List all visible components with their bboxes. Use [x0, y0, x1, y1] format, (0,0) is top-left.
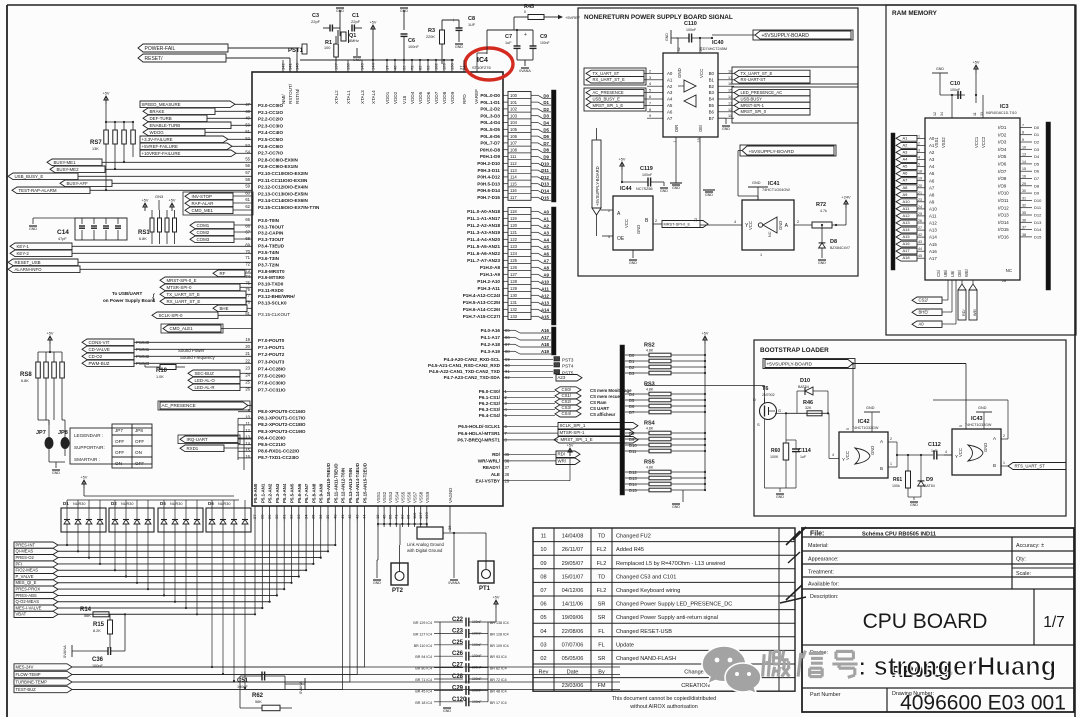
svg-text:19/09/06: 19/09/06	[562, 615, 584, 621]
svg-text:D9: D9	[629, 437, 635, 442]
svg-text:CS Ram: CS Ram	[590, 400, 607, 405]
svg-text:This document cannot be copied: This document cannot be copied/distribut…	[612, 696, 716, 702]
svg-text:BR 93 IC4: BR 93 IC4	[490, 655, 507, 659]
flag FLOW-TEMP	[14, 671, 620, 677]
svg-text:GND: GND	[722, 127, 730, 131]
svg-text:60: 60	[245, 190, 250, 195]
svg-text:7: 7	[1022, 123, 1024, 127]
svg-text:KEY-2: KEY-2	[17, 251, 30, 256]
svg-text:D9: D9	[543, 155, 549, 160]
svg-text:D2: D2	[629, 365, 635, 370]
svg-text:112: 112	[510, 161, 517, 166]
svg-text:D12: D12	[541, 175, 550, 180]
capacitor C14 bank	[57, 218, 127, 241]
revision table	[533, 528, 795, 691]
svg-text:QI-MEAS: QI-MEAS	[16, 549, 34, 554]
power +24V	[842, 196, 851, 226]
svg-text:A13: A13	[541, 300, 550, 305]
ground below R61 D9	[908, 497, 921, 507]
svg-text:16: 16	[1022, 175, 1026, 179]
flag RESET_USB	[8, 259, 252, 266]
power +5V RS1 left	[142, 199, 149, 212]
svg-text:R62: R62	[252, 693, 264, 699]
svg-text:+24V: +24V	[842, 196, 851, 200]
svg-text:D7: D7	[543, 141, 549, 146]
IC4 left pin names P2 group	[258, 103, 320, 210]
svg-text:A6: A6	[903, 171, 909, 176]
svg-text:+5V: +5V	[702, 332, 709, 336]
svg-text:P6.4-CS4/: P6.4-CS4/	[479, 413, 501, 418]
svg-text:A17: A17	[929, 256, 937, 261]
svg-text:USB-BUSY: USB-BUSY	[741, 96, 763, 101]
flag MRST-SPI-0_E	[653, 219, 708, 228]
svg-text:21: 21	[918, 191, 922, 195]
capacitor C119	[622, 166, 664, 187]
title device row RB05C5	[810, 650, 953, 681]
svg-text:10: 10	[1022, 145, 1026, 149]
svg-text:118: 118	[510, 209, 517, 214]
svg-text:BR 129 IC4: BR 129 IC4	[413, 621, 432, 625]
svg-text:C8: C8	[468, 16, 475, 22]
svg-text:Changed NAND-FLASH: Changed NAND-FLASH	[616, 656, 676, 662]
svg-text:6.8K: 6.8K	[139, 237, 147, 241]
capacitor C36	[92, 614, 125, 668]
svg-text:D13: D13	[541, 182, 550, 187]
flag P_VALVE	[14, 574, 58, 580]
svg-text:9: 9	[1022, 138, 1024, 142]
svg-text:XTAL4: XTAL4	[371, 90, 376, 104]
svg-text:D14: D14	[1034, 227, 1042, 232]
svg-text:MES_QI_E: MES_QI_E	[16, 580, 37, 585]
svg-text:100: 100	[324, 46, 330, 50]
IC4 right pin names P1L/P1H address	[463, 209, 501, 319]
svg-text:127: 127	[510, 272, 518, 277]
svg-text:VDD9: VDD9	[450, 91, 455, 104]
svg-text:GND: GND	[52, 471, 60, 475]
flag COM1	[190, 222, 252, 229]
flag BUSY-AFF	[60, 180, 252, 187]
IC4 left pin names P7 group	[258, 338, 286, 393]
svg-text:A7: A7	[543, 258, 549, 263]
svg-text:D3: D3	[629, 371, 635, 376]
svg-text:23: 23	[918, 198, 922, 202]
svg-text:CS mem recueil: CS mem recueil	[590, 394, 622, 399]
svg-text:P0H.2-D10: P0H.2-D10	[477, 161, 500, 166]
svg-text:1: 1	[673, 140, 677, 142]
svg-text:GND: GND	[818, 261, 826, 265]
svg-text:P3.4-T3EUD: P3.4-T3EUD	[258, 243, 285, 248]
svg-text:A1: A1	[667, 77, 673, 82]
svg-text:R60: R60	[771, 448, 780, 454]
svg-text:Link Analog Ground: Link Analog Ground	[407, 542, 444, 547]
svg-text:A11: A11	[903, 206, 911, 211]
ground right of C119	[660, 182, 668, 193]
svg-text:R72: R72	[816, 202, 826, 208]
svg-text:PRES-PROX: PRES-PROX	[16, 587, 41, 592]
bus bar RAM left	[891, 133, 895, 270]
note To USB/UART on Power Supply Board	[103, 291, 155, 303]
diode array D2 NUR30	[109, 500, 154, 532]
svg-text:GND: GND	[776, 495, 784, 499]
flag KEY-2	[10, 250, 252, 257]
svg-text:0: 0	[524, 10, 526, 14]
IC4 left pin numbers P3 group	[245, 217, 250, 316]
wire diode array drops	[66, 532, 246, 689]
svg-text:FL: FL	[598, 642, 605, 648]
flag WDOG	[143, 129, 252, 136]
svg-text:D15: D15	[541, 195, 550, 200]
svg-text:A2: A2	[903, 143, 909, 148]
svg-text:P7.0-POUT0: P7.0-POUT0	[258, 338, 285, 343]
svg-text:IC3: IC3	[1000, 104, 1009, 110]
wire analog fan bundle	[58, 521, 365, 690]
svg-text:with Digital Ground: with Digital Ground	[407, 548, 443, 553]
svg-text:0VANA: 0VANA	[62, 645, 67, 658]
svg-text:Changed Keyboard wiring: Changed Keyboard wiring	[616, 588, 680, 594]
svg-text:A13: A13	[903, 220, 911, 225]
svg-text:0VANA: 0VANA	[448, 581, 460, 585]
ground above IC42	[864, 406, 880, 432]
svg-text:03: 03	[540, 642, 546, 648]
title appearance row	[808, 557, 839, 563]
svg-text:{: {	[152, 292, 155, 302]
svg-text:P0H.0-D8: P0H.0-D8	[480, 147, 501, 152]
svg-text:P8.0-XPOUT0-CC16IO: P8.0-XPOUT0-CC16IO	[258, 409, 306, 414]
ground 0VANA below link	[448, 532, 460, 585]
svg-text:P5.7-AN7: P5.7-AN7	[304, 483, 309, 503]
flag CONS-VIT	[82, 339, 252, 346]
svg-text:RXD1: RXD1	[187, 446, 199, 451]
svg-text:P0H.3-D11: P0H.3-D11	[478, 168, 501, 173]
RAM bottom control flags	[912, 280, 948, 303]
svg-text:D14: D14	[541, 189, 550, 194]
ground right IC40 B7	[718, 112, 730, 131]
svg-text:A1: A1	[543, 216, 549, 221]
wire P8 rows left stubs	[238, 412, 252, 470]
flag DEF-TURB	[143, 115, 252, 122]
svg-text:USB_BUSY_E: USB_BUSY_E	[593, 96, 621, 101]
flag PRES-INT	[14, 542, 58, 548]
svg-text:GND: GND	[910, 503, 918, 507]
svg-text:P4.0-A16: P4.0-A16	[481, 328, 501, 333]
svg-text:BHE/: BHE/	[919, 310, 930, 315]
svg-text:38: 38	[1022, 233, 1026, 237]
svg-text:MRST_SPI_0: MRST_SPI_0	[741, 109, 767, 114]
svg-text:09: 09	[540, 561, 546, 567]
svg-text:BR 128 IC4: BR 128 IC4	[490, 632, 509, 636]
flag MTSR-SPI-1	[558, 430, 634, 437]
IC4 bottom pin names P5 group rotated	[253, 463, 368, 503]
IC4 top pin names	[281, 83, 479, 104]
svg-text:D5: D5	[543, 127, 549, 132]
flag ENABLE-TURB	[143, 122, 252, 129]
svg-text:EA/-VSTBY: EA/-VSTBY	[475, 478, 500, 483]
svg-text:P1L.7-A7-AN23: P1L.7-A7-AN23	[467, 258, 500, 263]
buffer IC44 NC7SZ66	[601, 186, 654, 258]
svg-text:4.8K: 4.8K	[646, 466, 654, 470]
svg-text:D5: D5	[160, 501, 166, 506]
svg-text:100nF: 100nF	[686, 28, 697, 32]
svg-text:Changed Power Supply anti-retu: Changed Power Supply anti-return signal	[616, 615, 718, 621]
flag FIO2-MEAS	[14, 567, 58, 573]
svg-text:A18: A18	[903, 255, 911, 260]
svg-text:D6: D6	[1034, 169, 1040, 174]
flag SCLK-SPI-0	[152, 312, 252, 319]
svg-text:IC40: IC40	[712, 40, 724, 46]
svg-text:P4.2-A18: P4.2-A18	[481, 342, 501, 347]
flag MRST_SPI_1_E	[554, 437, 638, 444]
svg-text:D0: D0	[1034, 125, 1040, 130]
svg-text:P5.14-AN14-T4EUD: P5.14-AN14-T4EUD	[355, 463, 360, 503]
svg-text:1/7: 1/7	[1043, 614, 1065, 631]
svg-text:A6: A6	[667, 109, 673, 114]
svg-text:P6.2-CS2/: P6.2-CS2/	[479, 401, 501, 406]
IC4 right pin names P4 group	[481, 328, 551, 354]
svg-text:P1L.4-A4-AN20: P1L.4-A4-AN20	[467, 237, 500, 242]
svg-text:GND: GND	[455, 45, 463, 49]
svg-text:105: 105	[510, 127, 518, 132]
svg-text:A9: A9	[543, 272, 549, 277]
svg-text:100nF: 100nF	[92, 664, 103, 668]
svg-text:MRST_SPI_1_E: MRST_SPI_1_E	[593, 103, 624, 108]
IC4 bottom pin names VSS rotated	[376, 488, 453, 503]
svg-text:P3.11-RXD0: P3.11-RXD0	[258, 288, 284, 293]
svg-text:A1: A1	[929, 143, 935, 148]
svg-text:31: 31	[1022, 196, 1026, 200]
note Sound Power / Sound Frequency	[178, 348, 215, 360]
svg-text:13K: 13K	[92, 147, 99, 151]
svg-text:RSTIN/: RSTIN/	[295, 88, 300, 104]
svg-text:P7.6-CC30IO: P7.6-CC30IO	[258, 381, 286, 386]
svg-text:Material:: Material:	[808, 543, 829, 549]
svg-text:26/11/07: 26/11/07	[562, 547, 583, 553]
IC4 left pin numbers P7 group	[245, 337, 250, 392]
svg-text:GN3: GN3	[155, 194, 164, 199]
svg-text:45: 45	[918, 254, 922, 258]
IC4 right pin names P0L/P0H data	[477, 93, 500, 200]
wire A rows to bus	[531, 209, 551, 319]
flag RD/	[556, 451, 580, 458]
flag group left IC40	[584, 68, 647, 111]
bus bar D bootstrap	[620, 345, 625, 495]
svg-text:VSS6: VSS6	[407, 491, 412, 503]
svg-text:P8.2-XPOUT2-CC18IO: P8.2-XPOUT2-CC18IO	[258, 422, 306, 427]
resistor R1	[324, 36, 338, 64]
watermark wechat icon	[702, 646, 761, 694]
title available row	[808, 582, 839, 588]
svg-text:D13: D13	[629, 476, 637, 481]
svg-text:100nF: 100nF	[642, 173, 653, 177]
svg-text:MES-I-VALVE: MES-I-VALVE	[16, 605, 42, 610]
capacitor C8	[442, 16, 476, 42]
svg-text:P2.4-CC4IO: P2.4-CC4IO	[258, 130, 283, 135]
flag CS2/	[555, 399, 607, 405]
svg-text:JP8: JP8	[135, 428, 143, 433]
svg-text:USB_BUSY_E: USB_BUSY_E	[15, 174, 44, 179]
svg-text:D2: D2	[543, 107, 549, 112]
svg-text:P2.11-CC11IOIO-EX3IN: P2.11-CC11IOIO-EX3IN	[258, 178, 308, 183]
svg-text:Rev: Rev	[539, 670, 549, 676]
svg-text:B1: B1	[709, 77, 715, 82]
IC4 left pin numbers P8 group	[245, 408, 250, 459]
svg-text:GND: GND	[752, 181, 761, 185]
svg-text:A12: A12	[903, 213, 911, 218]
svg-text:D1: D1	[629, 359, 635, 364]
svg-text:SUPPORTAIR:: SUPPORTAIR:	[74, 445, 105, 450]
svg-text:+5V: +5V	[142, 199, 149, 203]
resistor network RS7	[90, 122, 135, 152]
svg-text:PST3: PST3	[562, 358, 574, 363]
svg-text:OE: OE	[617, 236, 625, 242]
jumper JP8	[58, 426, 70, 456]
svg-text:P0L.4-D4: P0L.4-D4	[480, 120, 500, 125]
svg-text:OFF: OFF	[115, 450, 124, 455]
svg-text:A0: A0	[667, 71, 673, 76]
flag BUSY-ME1	[47, 159, 252, 166]
title treatment row	[808, 570, 834, 576]
svg-text:19: 19	[918, 177, 922, 181]
svg-text:2: 2	[890, 437, 892, 441]
svg-text:A7: A7	[903, 178, 909, 183]
svg-text:10: 10	[540, 547, 546, 553]
svg-text:3: 3	[918, 149, 920, 153]
svg-text:I/O3: I/O3	[998, 140, 1007, 145]
svg-text:8: 8	[649, 108, 651, 112]
svg-text:A8: A8	[903, 185, 909, 190]
ground GND below VSS	[373, 560, 381, 585]
svg-text:To USB/UART: To USB/UART	[112, 291, 142, 296]
svg-text:RS1: RS1	[138, 230, 150, 236]
svg-text:A16: A16	[929, 249, 937, 254]
svg-text:+5V: +5V	[567, 444, 574, 448]
svg-text:126: 126	[510, 265, 518, 270]
svg-text:Schéma CPU RB0505 IND11: Schéma CPU RB0505 IND11	[862, 532, 936, 538]
svg-text:GND: GND	[660, 189, 668, 193]
svg-text:65: 65	[245, 217, 250, 222]
svg-text:BR 127 IC4: BR 127 IC4	[413, 632, 432, 636]
wire rows INV-STOP group	[183, 192, 253, 215]
svg-text:A1: A1	[903, 135, 909, 140]
svg-text:BOOTSTRAP LOADER: BOOTSTRAP LOADER	[760, 347, 829, 354]
svg-text:P1H.4-A12-CC24I: P1H.4-A12-CC24I	[463, 293, 500, 298]
IC4 right pin names RD WR READY ALE EA	[475, 452, 570, 483]
svg-text:FLOW-TEMP: FLOW-TEMP	[16, 672, 41, 677]
capacitor C6	[401, 34, 420, 64]
flag RF	[213, 270, 252, 277]
ground above IC41	[748, 181, 768, 200]
check mark 2	[780, 585, 806, 603]
svg-text:SMARTAIR :: SMARTAIR :	[74, 457, 100, 462]
svg-text:P1H.2-A10: P1H.2-A10	[477, 279, 500, 284]
svg-text:C14: C14	[57, 229, 69, 236]
svg-text:XTAL3: XTAL3	[360, 90, 365, 104]
svg-text:AC_PRESENCE: AC_PRESENCE	[162, 403, 196, 408]
flag MRST-SPI-0_E	[160, 277, 252, 284]
svg-text:SR: SR	[598, 602, 606, 608]
flag A0 RAM	[912, 280, 956, 327]
svg-text:+5V: +5V	[169, 199, 176, 203]
svg-text:BR 45 IC4: BR 45 IC4	[415, 689, 432, 693]
svg-text:P0H.5-D13: P0H.5-D13	[477, 181, 500, 186]
diode array D6 NUR30	[206, 500, 251, 532]
svg-text:D5: D5	[629, 398, 635, 403]
svg-text:71: 71	[245, 255, 250, 260]
svg-text:A2: A2	[667, 84, 673, 89]
svg-text:P3.12-BHE/WRH/: P3.12-BHE/WRH/	[258, 294, 295, 299]
svg-text:P0L.0-D0: P0L.0-D0	[480, 93, 500, 98]
svg-text:P0H.7-D15: P0H.7-D15	[477, 195, 500, 200]
svg-text:VDD4: VDD4	[410, 91, 415, 104]
svg-text:38: 38	[505, 472, 510, 477]
svg-text:62: 62	[245, 204, 250, 209]
capacitor C114	[786, 440, 812, 488]
svg-text:D9: D9	[1034, 191, 1040, 196]
svg-text:131: 131	[510, 300, 518, 305]
svg-text:P5.2-AN2: P5.2-AN2	[268, 483, 273, 503]
flag COM2	[190, 229, 252, 236]
svg-text:132: 132	[510, 307, 518, 312]
resistor R10	[145, 363, 185, 379]
svg-text:GND: GND	[400, 9, 408, 13]
svg-text:D9: D9	[926, 477, 933, 483]
svg-text:I/O13: I/O13	[998, 213, 1009, 218]
svg-text:+10VREF-FAILURE: +10VREF-FAILURE	[142, 151, 181, 156]
svg-text:GND: GND	[443, 709, 451, 713]
svg-text:1: 1	[890, 462, 892, 466]
svg-text:BR 110 IC4: BR 110 IC4	[414, 644, 432, 648]
power +5V top	[370, 21, 377, 65]
svg-text:74HCT1G04GW: 74HCT1G04GW	[762, 188, 790, 192]
svg-text:R10: R10	[156, 368, 168, 374]
svg-text:07/07/06: 07/07/06	[562, 642, 584, 648]
svg-text:CD-VALVE: CD-VALVE	[89, 347, 110, 352]
svg-text:P6.5-HOLD/-SCLK1: P6.5-HOLD/-SCLK1	[458, 424, 500, 429]
svg-text:VCC: VCC	[845, 451, 850, 460]
svg-text:34: 34	[940, 112, 944, 116]
wire PRES signal rows	[58, 544, 336, 616]
svg-text:ON: ON	[135, 450, 142, 455]
svg-text:A14: A14	[903, 227, 911, 232]
svg-text:0VANA: 0VANA	[298, 681, 303, 694]
title part number	[810, 692, 841, 698]
svg-text:122: 122	[510, 237, 518, 242]
svg-text:P2.1-CC1IO: P2.1-CC1IO	[258, 110, 283, 115]
power +5V RAM	[973, 61, 980, 97]
svg-text:OFF: OFF	[135, 461, 144, 466]
svg-text:P7.4-CC28IO: P7.4-CC28IO	[258, 366, 286, 371]
svg-text:22pF: 22pF	[311, 19, 321, 24]
svg-text:A5: A5	[929, 171, 935, 176]
wire diode array top rail	[67, 499, 239, 501]
svg-text:C114: C114	[798, 448, 812, 454]
jumper JP7	[36, 420, 54, 462]
svg-text:P2.15-CC15IOIO-EX7IN-T7IN: P2.15-CC15IOIO-EX7IN-T7IN	[258, 205, 320, 210]
svg-text:LED-AL-R: LED-AL-R	[195, 385, 215, 390]
svg-text:GND: GND	[778, 221, 783, 230]
title file row	[810, 531, 936, 538]
svg-text:20: 20	[918, 184, 922, 188]
IC4 left pin numbers P2 group	[245, 102, 250, 209]
svg-text:A0: A0	[929, 136, 935, 141]
svg-text:CS0/: CS0/	[562, 387, 572, 392]
svg-text:P8.4-CC20IO: P8.4-CC20IO	[258, 435, 286, 440]
svg-text:AC_PRESENCE: AC_PRESENCE	[593, 90, 624, 95]
svg-text:P5.10-AN10-T6EUD: P5.10-AN10-T6EUD	[326, 463, 331, 503]
flag CMD_ALE1	[161, 324, 252, 333]
svg-text:100K: 100K	[770, 455, 779, 459]
svg-text:24: 24	[918, 205, 922, 209]
svg-text:RX_UART_ST_E: RX_UART_ST_E	[593, 77, 625, 82]
